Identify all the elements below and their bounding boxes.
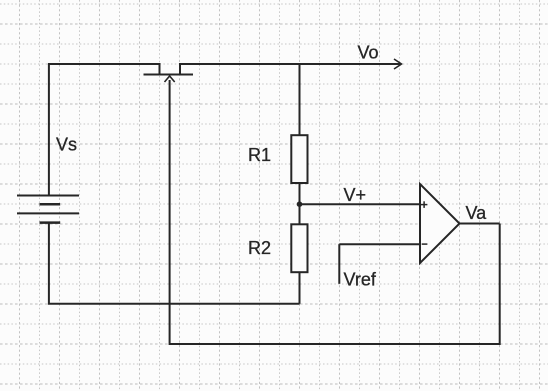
wire: bottom rail from battery negative down and right to R2 bottom <box>49 223 300 304</box>
svg-text:R1: R1 <box>248 145 271 165</box>
svg-text:Vref: Vref <box>344 270 377 290</box>
wire: op-amp output to feedback corner <box>460 223 500 225</box>
svg-text:V+: V+ <box>344 185 367 205</box>
op-amp + input marking <box>421 201 428 208</box>
transistor Q1 gate arrowhead <box>165 76 175 82</box>
battery Vs <box>17 196 79 223</box>
wire: between R1 and R2 through node V+ <box>299 183 301 224</box>
resistor R2 <box>291 224 307 272</box>
wire: R1 top stub from top rail <box>299 64 301 135</box>
svg-text:Vs: Vs <box>56 135 77 155</box>
op-amp U1 <box>420 184 460 263</box>
svg-text:Va: Va <box>466 203 488 223</box>
wire: R2 bottom stub <box>299 272 301 304</box>
transistor Q1 (JFET pass element) <box>144 63 194 75</box>
wire: battery positive terminal up to top rail <box>48 64 50 196</box>
wire: transistor right leg to R1 top node and Vo arrow <box>180 63 401 65</box>
arrowhead of Vo output <box>394 59 402 69</box>
resistor R1 <box>291 135 307 183</box>
svg-text:Vo: Vo <box>358 42 379 62</box>
wire: Vref vertical stub <box>338 244 340 284</box>
wire: feedback from op-amp output down, across bottom, up to transistor gate <box>170 80 500 344</box>
op-amp - input marking <box>422 243 428 245</box>
node V+ junction dot <box>297 201 303 207</box>
wire: top rail from battery to transistor source leg <box>48 63 160 65</box>
svg-text:R2: R2 <box>248 238 271 258</box>
wire: Vref to op-amp inverting input <box>339 243 419 245</box>
wire: V+ node to op-amp non-inverting input <box>300 203 420 205</box>
